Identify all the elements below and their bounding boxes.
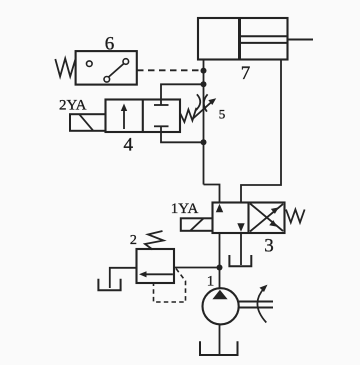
svg-text:3: 3 (264, 235, 274, 256)
relief valve 2 pilot dashed line (154, 269, 186, 303)
cylinder 7 body (198, 18, 288, 60)
wire: valve 3 P port down to pump (through junction) (219, 233, 221, 288)
wire: jog from main line to valve 3 P port (204, 185, 220, 204)
wire: relief valve 2 outlet to tank (110, 268, 137, 288)
valve 3 straight flow arrows (left square) (216, 204, 245, 232)
cylinder 7 rod (240, 36, 314, 43)
pump 1 circle (203, 288, 239, 324)
label 2 (130, 233, 137, 248)
valve 3 crossed arrows (right square) (250, 204, 283, 232)
tank symbol under valve 3 (229, 255, 251, 266)
svg-text:1YA: 1YA (171, 201, 199, 217)
pressure switch 6 spring (55, 59, 75, 77)
valve 4 spring (180, 108, 196, 122)
junction dot pump node (217, 265, 223, 271)
svg-text:2: 2 (130, 233, 137, 248)
svg-text:5: 5 (219, 107, 226, 122)
svg-text:2YA: 2YA (59, 98, 87, 114)
label 1 (207, 274, 215, 290)
junction dot at node A / switch pilot (201, 68, 207, 74)
wire: pump node to relief valve 2 (174, 267, 220, 269)
pressure switch 6 contacts (87, 59, 129, 82)
label 5 (219, 107, 226, 122)
wire: dashed pilot line from switch 6 to node A (137, 69, 204, 71)
svg-text:7: 7 (241, 63, 251, 84)
svg-text:6: 6 (105, 34, 115, 55)
valve 3 body (213, 203, 285, 234)
pump 1 outlet triangle (212, 290, 227, 299)
valve 3 spring (286, 210, 305, 223)
svg-text:1: 1 (207, 274, 215, 290)
relief valve 2 box (137, 249, 175, 283)
wire: cylinder rod-end port down right side to valve 3 (241, 60, 281, 204)
pump 1 rotation arrow (257, 285, 267, 323)
wire: pump suction to tank (219, 324, 221, 354)
throttle valve 5 (193, 94, 217, 119)
relief valve 2 flow arrow (139, 271, 173, 277)
tank symbol for relief valve 2 (98, 279, 120, 291)
pressure switch 6 box (76, 51, 137, 85)
valve 3 solenoid (181, 218, 213, 231)
label 3 (264, 235, 274, 256)
wire: valve 4 bypass bottom to node A (161, 132, 204, 142)
valve 4 body (106, 100, 181, 133)
wire: valve 4 bypass top to node A (161, 84, 204, 99)
label 1YA (171, 201, 199, 217)
junction dot bypass top (201, 81, 207, 87)
valve 4 solenoid (70, 114, 106, 131)
label 4 (124, 134, 134, 155)
relief valve 2 spring (145, 231, 164, 250)
cylinder 7 piston (238, 18, 241, 60)
valve 4 blocked port T bottom (154, 126, 169, 132)
label 7 (241, 63, 251, 84)
label 2YA (59, 98, 87, 114)
wire: cylinder cap-end port down (main vertical line, node A) (203, 60, 205, 185)
valve 4 blocked port T top (154, 100, 169, 106)
svg-text:4: 4 (124, 134, 134, 155)
tank symbol under pump (200, 341, 238, 355)
junction dot bypass bottom (201, 139, 207, 145)
valve 4 flow arrow (left position) (121, 104, 127, 130)
wire: valve 3 T port down to tank (240, 233, 242, 265)
label 6 (105, 34, 115, 55)
pump 1 drive shaft (239, 302, 273, 308)
